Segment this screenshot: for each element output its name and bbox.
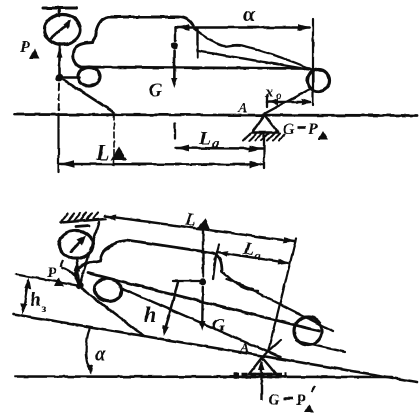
right wheel top diagram — [308, 70, 330, 92]
svg-text:A: A — [237, 101, 247, 116]
gauge body bottom diagram — [59, 231, 93, 259]
svg-text:G: G — [283, 121, 295, 138]
ceiling hatch — [62, 213, 98, 222]
L_D right extension to A — [268, 239, 296, 352]
h top tick — [173, 280, 202, 282]
svg-text:x: x — [264, 84, 273, 101]
junction dot front axle — [56, 74, 64, 82]
rear slant to wheel — [198, 51, 312, 70]
ceiling support line — [61, 219, 106, 223]
chassis underside line — [123, 289, 280, 357]
cab rear wall — [196, 29, 198, 57]
svg-text:L: L — [95, 140, 109, 165]
axle line — [80, 67, 308, 69]
alpha dimension line — [175, 26, 309, 29]
cab rear wall bottom — [213, 256, 216, 279]
front slant bottom — [82, 289, 144, 336]
ground line bottom — [15, 375, 392, 378]
vertical extension at wheel x=313 — [312, 19, 314, 105]
svg-text:L: L — [198, 128, 211, 149]
rear deck second stroke — [242, 46, 311, 70]
L_a arrows — [176, 145, 189, 152]
alpha dim right arrowhead — [298, 24, 311, 31]
svg-text:G: G — [149, 80, 162, 100]
L_D bottom arrows — [106, 215, 116, 221]
up arrow shaft at A — [260, 365, 262, 400]
stem up arrowhead bottom — [74, 261, 80, 271]
label L_a bottom — [241, 238, 264, 264]
CG dot — [171, 42, 178, 49]
up arrowhead at A — [258, 359, 265, 370]
svg-text:α: α — [95, 344, 106, 365]
chi_o right arrowhead — [302, 99, 312, 105]
needle arrowhead — [63, 20, 71, 29]
svg-text:A: A — [239, 341, 249, 356]
gauge needle bottom — [71, 226, 89, 252]
alpha dim left arrowhead — [176, 24, 189, 31]
alpha arc — [86, 327, 90, 371]
hanger rod — [80, 222, 99, 283]
h bottom arrowhead — [163, 326, 169, 337]
BOTTOM-DIAGRAM — [59, 213, 106, 284]
alpha arc arrowhead — [87, 365, 94, 375]
L_a left tick bottom — [215, 245, 219, 260]
stem up arrowhead — [57, 48, 63, 58]
hatching under A — [243, 134, 285, 141]
gauge stem — [58, 45, 61, 75]
chi_o left arrowhead — [268, 99, 278, 105]
L_D dim line bottom — [105, 216, 294, 242]
svg-text:α: α — [243, 1, 256, 26]
L_a dim line bottom — [217, 252, 288, 263]
G arrowhead — [171, 78, 177, 88]
front slant to ground — [64, 80, 114, 113]
svg-text:P: P — [295, 392, 306, 409]
dial gauge P top T-bar — [43, 7, 77, 10]
rear deck wavy bottom — [222, 271, 258, 291]
junction dot bottom — [76, 282, 83, 289]
G line bottom — [202, 229, 204, 277]
CG dot bottom — [200, 279, 207, 286]
extension at front contact — [113, 114, 115, 166]
vehicle body outline top — [73, 17, 194, 67]
incline line — [13, 314, 417, 382]
h dim line — [165, 282, 179, 332]
svg-text:з: з — [42, 301, 47, 315]
gauge needle — [51, 22, 69, 38]
h3 arrowheads — [25, 278, 32, 290]
needle arrowhead bottom — [77, 235, 87, 246]
svg-text:h: h — [30, 289, 41, 311]
rear deck slant bottom — [252, 290, 333, 331]
front wheel bottom diagram — [92, 276, 123, 304]
L_D dim line — [60, 163, 264, 166]
extension below A — [263, 133, 265, 168]
front wheel top diagram — [78, 67, 100, 86]
svg-text:G: G — [212, 315, 225, 335]
svg-text:P: P — [19, 39, 30, 56]
G extension above dot — [174, 28, 176, 41]
gauge reference line — [16, 275, 80, 286]
gauge stem bottom — [77, 258, 80, 283]
link dot to wheel — [63, 76, 80, 79]
h3 double arrow shaft — [24, 281, 29, 311]
svg-text:a: a — [212, 137, 219, 152]
axle line bottom — [88, 273, 319, 331]
wheel to A line bottom — [262, 340, 281, 357]
svg-text:h: h — [144, 302, 156, 327]
hatch bar bottom — [233, 373, 286, 379]
chi_o tick — [266, 96, 268, 108]
hood front stroke — [62, 268, 78, 281]
label L_D bottom — [183, 208, 213, 232]
rear wheel bottom diagram — [294, 317, 322, 345]
chi_o dim line — [267, 101, 310, 104]
dashed extension below gauge — [59, 84, 60, 113]
support triangle bottom — [249, 358, 276, 375]
svg-text:P: P — [47, 265, 57, 281]
L_a dim line — [175, 147, 263, 150]
svg-text:G: G — [268, 392, 280, 409]
second deck stroke — [226, 279, 253, 289]
wheel to A line — [263, 88, 312, 115]
dial gauge body — [45, 15, 81, 45]
L_a left tick — [174, 124, 176, 139]
body outline bottom — [76, 240, 222, 284]
svg-text:P: P — [307, 121, 318, 138]
svg-text:o: o — [276, 88, 282, 102]
L_D arrows — [61, 160, 75, 168]
support triangle at A — [252, 115, 278, 133]
L_a bottom arrows — [218, 251, 228, 257]
ground line top — [14, 115, 417, 116]
tangent under rear wheel — [296, 341, 345, 352]
G arrow shaft — [173, 51, 176, 84]
G arrowhead bottom — [199, 321, 205, 331]
rear deck wavy line — [194, 28, 242, 46]
